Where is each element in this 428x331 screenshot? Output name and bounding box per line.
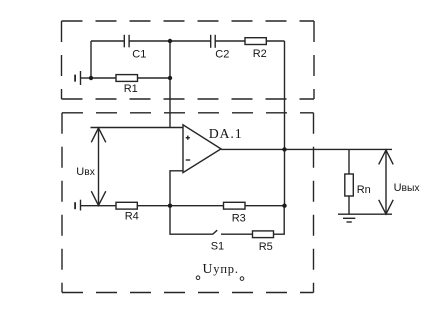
svg-text:R1: R1 — [124, 83, 138, 95]
node: top rail / vertical — [168, 39, 172, 43]
resistor R1 — [116, 75, 138, 82]
dashed box upper (feedback network) — [62, 21, 315, 99]
wire terminal to node — [81, 77, 92, 79]
wire node up — [90, 41, 92, 78]
wire R5 up to node — [274, 206, 285, 235]
wire top rail to C1 — [91, 40, 124, 42]
node: output — [282, 147, 286, 151]
svg-text:Uупр.: Uупр. — [203, 261, 239, 276]
wire switch to R5 — [221, 233, 253, 235]
wire node to R1 — [91, 77, 116, 79]
capacitor C1 — [124, 35, 129, 48]
switch S1 lever — [213, 230, 218, 234]
svg-text:R2: R2 — [253, 48, 267, 60]
svg-text:R3: R3 — [232, 212, 246, 224]
op-amp DA.1 — [183, 125, 221, 173]
control terminal circle right — [240, 277, 244, 281]
wire terminal to R4 — [81, 205, 117, 207]
wire R1 to node — [138, 77, 171, 79]
svg-text:C2: C2 — [215, 49, 229, 61]
node: inverting input rail — [168, 204, 172, 208]
svg-text:C1: C1 — [132, 49, 146, 61]
svg-text:Rn: Rn — [357, 184, 371, 196]
junction node dots — [89, 39, 287, 208]
wire C1 to node — [129, 40, 211, 42]
svg-text:R5: R5 — [259, 241, 273, 253]
ground — [338, 214, 392, 222]
resistor R3 — [224, 202, 246, 209]
load resistor Rn — [345, 149, 354, 214]
wire R2 to right corner — [266, 40, 284, 42]
svg-text:R4: R4 — [125, 211, 139, 223]
wire inverting input bend — [170, 171, 183, 206]
node: R3 right — [282, 204, 286, 208]
wire noninverting input line — [91, 127, 184, 129]
Uvyx measuring arrow — [379, 150, 394, 214]
node: input/R1/C1 — [89, 76, 93, 80]
wire op-amp output — [221, 148, 392, 150]
wire C2 to R2 — [215, 40, 245, 42]
svg-text:Uвх: Uвх — [76, 166, 95, 178]
svg-text:S1: S1 — [211, 241, 224, 253]
input terminal tick (bottom) — [74, 202, 76, 209]
control terminal circle left — [196, 276, 200, 280]
resistor R4 — [116, 202, 137, 209]
wire vertical from top rail down to noninverting line — [169, 41, 171, 128]
capacitor C2 — [211, 35, 216, 48]
wire S1 branch down-left — [170, 206, 213, 235]
minus mark — [186, 159, 191, 161]
plus mark — [186, 136, 190, 140]
input terminal tick (top) — [74, 75, 76, 82]
wire R3 to node — [245, 205, 285, 207]
svg-text:DA.1: DA.1 — [209, 126, 243, 141]
input terminal bar (top) — [80, 71, 82, 85]
wire right vertical (feedback to output node) — [284, 41, 286, 206]
resistor R5 — [253, 231, 274, 238]
svg-text:Uвых: Uвых — [394, 182, 421, 194]
wire R4 to node — [137, 205, 223, 207]
input terminal bar (bottom) — [80, 200, 82, 211]
dashed box lower (amplifier block) — [62, 113, 314, 293]
node: R1 right — [168, 76, 172, 80]
resistor R2 — [245, 38, 266, 45]
Uvx measuring arrow — [91, 128, 106, 206]
